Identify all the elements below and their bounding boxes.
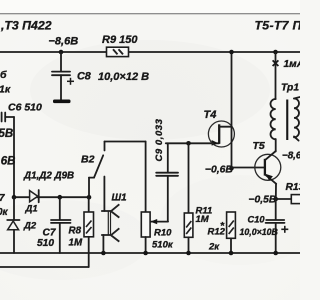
wire R10 wiper (151, 221, 168, 223)
wire В2 to R10 top (105, 141, 146, 143)
svg-text:Т5-Т7 П: Т5-Т7 П (255, 18, 301, 32)
svg-text:R9 150: R9 150 (102, 34, 138, 46)
wire diode row (14, 196, 89, 198)
wire Ш1 sleeve to common rail (102, 235, 104, 253)
wire C7 to common rail (59, 223, 61, 253)
svg-text:5В: 5В (0, 128, 13, 140)
svg-text:С10: С10 (248, 215, 266, 225)
wire rail to Тр1 primary (275, 52, 277, 99)
wire supply rail right segment (129, 51, 301, 53)
capacitor C8 (52, 71, 70, 73)
wire Т5 collector to transformer (275, 139, 277, 152)
svg-text:Т5: Т5 (253, 140, 265, 152)
wire R8 lead crossing rail (88, 237, 90, 267)
svg-text:10,0×12 В: 10,0×12 В (98, 71, 149, 83)
svg-text:б: б (0, 69, 7, 81)
R10 wiper arrow (150, 219, 157, 224)
node R11 rail junction (186, 251, 191, 256)
wire C6 to node A (5, 116, 14, 118)
svg-text:7: 7 (0, 193, 5, 204)
wire Д2 anode lead (13, 197, 15, 220)
wire Т4 collector from rail (231, 52, 233, 168)
svg-text:510к: 510к (152, 240, 174, 251)
svg-text:−8,6В: −8,6В (49, 35, 79, 47)
capacitor C9 (156, 172, 178, 174)
svg-text:Д1,Д2 Д9В: Д1,Д2 Д9В (23, 171, 74, 182)
svg-text:С9 0,033: С9 0,033 (154, 118, 165, 161)
transformer Тр1 secondary winding (294, 98, 299, 137)
node R12 rail junction (229, 251, 234, 256)
node -0,6В junction (229, 166, 234, 171)
svg-text:1М: 1М (69, 238, 83, 249)
wire to R13 (276, 198, 292, 200)
ground (53, 100, 71, 104)
diode Д1 (30, 191, 38, 202)
wire C9 top lead (167, 143, 169, 172)
svg-text:−8,6: −8,6 (282, 151, 300, 162)
capacitor C7 (51, 219, 71, 221)
resistor R12 (227, 212, 236, 238)
svg-text:R13: R13 (286, 182, 301, 193)
wire В2 to node C (88, 178, 90, 198)
wire common rail (0, 252, 300, 254)
wire R11 to common rail (188, 237, 190, 253)
node B junction (58, 195, 63, 200)
jack Ш1 contact top (111, 204, 119, 211)
wire R8 top lead (88, 197, 90, 212)
node Ш1 rail junction (101, 251, 106, 256)
svg-text:В2: В2 (81, 154, 95, 166)
jack Ш1 contact bottom (111, 228, 119, 235)
jack Ш1 body (102, 210, 111, 212)
svg-text:С6 510: С6 510 (8, 102, 42, 114)
node -0,5В junction (273, 197, 278, 202)
node R11 top junction (186, 141, 191, 146)
resistor R9 (107, 47, 129, 56)
resistor R13 (291, 195, 302, 204)
caption rule (top hairline) (0, 13, 300, 15)
wire C8 bottom lead (60, 75, 62, 99)
node R10 rail junction (143, 251, 148, 256)
wire Т4 emitter row (166, 142, 219, 144)
wire R12 to common rail (230, 238, 232, 253)
wire supply rail left segment (0, 51, 107, 53)
wire Т5 emitter down (275, 184, 277, 199)
svg-text:1мА: 1мА (284, 59, 301, 70)
node C10 rail junction (273, 251, 278, 256)
wire R11 top lead (188, 143, 190, 213)
svg-text:2к: 2к (208, 242, 220, 253)
capacitor C10 (266, 219, 284, 221)
wire C10 to common rail (275, 223, 277, 253)
wire secondary top lead (294, 97, 300, 99)
svg-text:Ш1: Ш1 (112, 193, 127, 204)
transistor Т4 (208, 121, 234, 147)
transformer Тр1 core (286, 100, 288, 141)
current break mark (273, 60, 279, 66)
wire lower return (0, 266, 89, 268)
svg-text:10,0×10В: 10,0×10В (240, 227, 279, 237)
wire Т4 to Т5 base (232, 167, 265, 169)
svg-text:0к: 0к (0, 207, 9, 218)
diode Д2 (7, 219, 19, 221)
Т4 emitter arrow (212, 140, 219, 146)
switch В2 (104, 142, 106, 151)
svg-text:С8: С8 (77, 71, 91, 83)
svg-text:Т4: Т4 (204, 109, 217, 121)
wire Д2 to common rail (13, 230, 15, 253)
svg-text:510: 510 (37, 238, 54, 249)
wire C7 top lead (59, 197, 61, 220)
resistor R8 (84, 212, 94, 237)
svg-text:1М: 1М (196, 214, 210, 225)
node rail junction right (273, 50, 278, 55)
svg-text:,Т3 П422: ,Т3 П422 (0, 18, 52, 32)
svg-text:Д2: Д2 (23, 221, 37, 232)
wire secondary bottom lead (294, 136, 299, 140)
node A junction (12, 195, 17, 200)
svg-text:1к: 1к (0, 84, 11, 96)
svg-text:Д1: Д1 (25, 204, 38, 215)
svg-text:,6В: ,6В (0, 156, 15, 168)
svg-text:Тр1: Тр1 (281, 83, 299, 94)
node C junction (87, 195, 92, 200)
svg-text:С7: С7 (43, 228, 57, 239)
capacitor C6 (1, 113, 3, 122)
wire R10 to common rail (145, 237, 147, 253)
svg-text:−0,6В: −0,6В (205, 164, 233, 175)
wire C10 top lead (275, 199, 277, 220)
svg-text:−0,5В: −0,5В (249, 195, 277, 206)
svg-text:R8: R8 (69, 226, 82, 237)
node -8,6В junction (59, 50, 64, 55)
potentiometer R10 (141, 212, 150, 237)
resistor R11 (184, 213, 193, 237)
transistor Т5 (255, 154, 281, 180)
node rail junction (229, 50, 234, 55)
transformer Тр1 primary winding (271, 99, 276, 139)
wire C8 top lead (60, 52, 62, 71)
svg-text:R10: R10 (154, 228, 172, 239)
wire Ш1 tip lead (103, 177, 105, 212)
wire C9 bottom lead to wiper (167, 176, 169, 222)
